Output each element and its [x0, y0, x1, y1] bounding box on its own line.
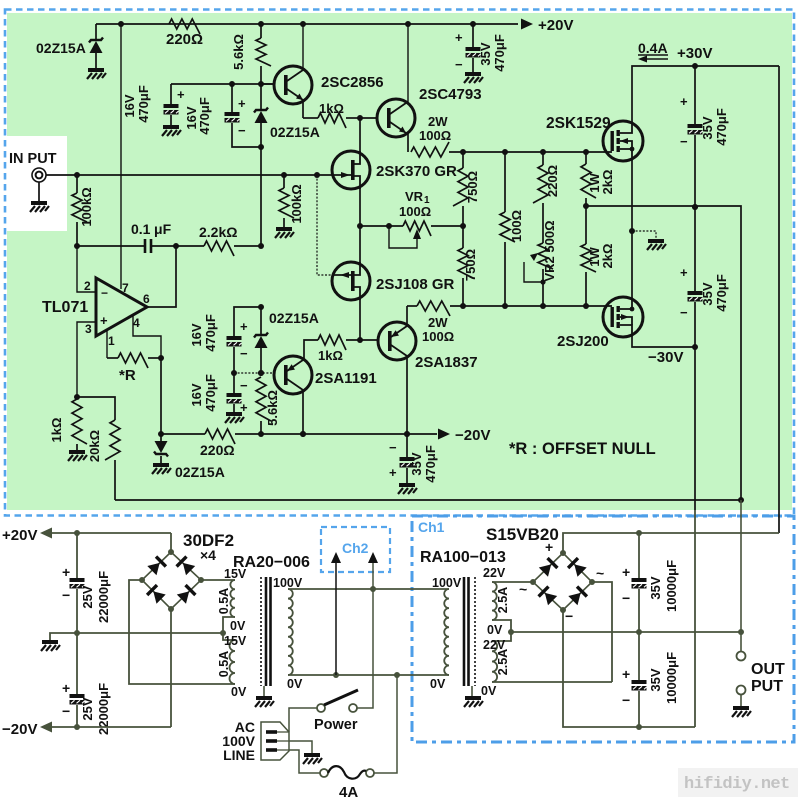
- svg-text:16V: 16V: [189, 323, 204, 346]
- VR1 wiper: [389, 226, 417, 248]
- svg-text:6: 6: [143, 292, 150, 306]
- mosfet Q7 2SK1529: [603, 121, 643, 161]
- wire Q7 drain to +30V rail: [632, 66, 779, 121]
- zener D3 02Z15A: [260, 307, 262, 335]
- capacitor C2 16V 470uF: [229, 81, 235, 87]
- svg-text:+: +: [545, 539, 553, 555]
- capacitor C10 35V 470uF (-20V): [406, 434, 408, 457]
- power switch: [357, 589, 373, 708]
- bridge right vertex to coil: [201, 579, 235, 581]
- ground below C10: [398, 485, 417, 494]
- svg-text:2W: 2W: [428, 114, 448, 129]
- capacitor 25V 22000uF upper: [76, 533, 78, 578]
- svg-text:100Ω: 100Ω: [399, 204, 431, 219]
- amplifier section background: [7, 13, 792, 510]
- svg-text:2SC4793: 2SC4793: [419, 86, 482, 103]
- svg-text:3: 3: [85, 322, 92, 336]
- bridge diodes: [147, 555, 167, 575]
- zener D1 02Z15A: [95, 24, 97, 40]
- svg-text:~: ~: [519, 581, 527, 597]
- svg-text:10000μF: 10000μF: [664, 652, 679, 704]
- svg-text:−30V: −30V: [648, 349, 683, 366]
- svg-text:−: −: [389, 440, 397, 455]
- 0V ground hook: [50, 633, 77, 641]
- svg-text:+: +: [177, 87, 185, 102]
- svg-text:−: −: [622, 590, 630, 606]
- op-amp U1 TL071: [96, 278, 147, 336]
- svg-text:+: +: [62, 680, 70, 696]
- wire bottom feedback rail: [115, 499, 741, 501]
- watermark: [678, 768, 798, 797]
- svg-text:16V: 16V: [122, 94, 137, 117]
- resistor R 1k (Q1 emitter): [303, 117, 318, 119]
- svg-text:*R: *R: [119, 367, 136, 384]
- -20V rail: [158, 431, 164, 437]
- 0V mid line: [511, 631, 741, 633]
- secondary coil top 15V: [230, 580, 235, 617]
- svg-text:2SJ108 GR: 2SJ108 GR: [376, 276, 455, 293]
- svg-text:−20V: −20V: [455, 427, 490, 444]
- svg-text:Power: Power: [314, 717, 358, 733]
- svg-text:470μF: 470μF: [423, 445, 438, 483]
- svg-text:2SK370 GR: 2SK370 GR: [376, 163, 457, 180]
- bridge - down: [563, 610, 695, 727]
- svg-text:02Z15A: 02Z15A: [36, 40, 86, 56]
- resistor *R offset: [107, 357, 118, 359]
- svg-text:2SC2856: 2SC2856: [321, 74, 384, 91]
- +20V supply rail: [40, 528, 52, 539]
- capacitor C1 16V 470uF: [171, 83, 274, 85]
- svg-text:220Ω: 220Ω: [200, 442, 235, 458]
- svg-text:470μF: 470μF: [203, 314, 218, 352]
- resistor R 750 lower: [458, 248, 473, 278]
- svg-text:−: −: [455, 57, 463, 72]
- svg-text:02Z15A: 02Z15A: [270, 124, 320, 140]
- svg-text:0V: 0V: [231, 685, 247, 699]
- wire pin1: [106, 330, 108, 358]
- svg-text:1kΩ: 1kΩ: [319, 101, 344, 116]
- svg-text:100Ω: 100Ω: [419, 128, 451, 143]
- svg-text:2W: 2W: [428, 315, 448, 330]
- core RA100: [464, 577, 469, 686]
- svg-text:2.2kΩ: 2.2kΩ: [199, 224, 237, 240]
- capacitor C6 16V 470uF: [258, 304, 264, 310]
- wire -30V down to PSU: [694, 347, 696, 510]
- secondary bottom 22V: [492, 632, 511, 641]
- jfet Q4 2SJ108 GR: [332, 262, 370, 300]
- svg-text:15V: 15V: [224, 634, 247, 648]
- svg-text:VR: VR: [405, 189, 424, 204]
- svg-text:+: +: [240, 400, 248, 415]
- core RA20: [260, 577, 262, 686]
- svg-text:−: −: [62, 587, 70, 603]
- svg-text:−: −: [680, 134, 688, 149]
- resistor R 100k input: [74, 172, 80, 178]
- svg-text:5.6kΩ: 5.6kΩ: [231, 34, 246, 70]
- svg-text:−: −: [240, 346, 248, 361]
- wire top +20V rail: [96, 23, 518, 25]
- capacitor C5 35V 470uF (+20V rail): [470, 21, 476, 27]
- svg-text:0V: 0V: [430, 677, 446, 691]
- svg-text:35V: 35V: [700, 116, 715, 139]
- wire Q5 emitter + resistor 1k lower: [304, 340, 318, 359]
- wire Q6 emitter up: [406, 306, 408, 324]
- transistor Q6 2SA1837: [378, 322, 416, 360]
- wire V+ feed to op-amp pin7: [118, 21, 124, 27]
- svg-text:~: ~: [596, 565, 604, 581]
- svg-text:100Ω: 100Ω: [422, 329, 454, 344]
- capacitor C9 35V470uF (-30V): [694, 207, 696, 291]
- svg-text:+: +: [680, 94, 688, 109]
- svg-text:220Ω: 220Ω: [166, 31, 203, 48]
- ground below C7: [225, 414, 244, 423]
- bridge left vertex loop: [129, 580, 235, 684]
- zener D2 02Z15A: [258, 81, 264, 87]
- capacitor 35V 10000uF upper: [636, 530, 642, 536]
- svg-text:220Ω: 220Ω: [545, 165, 560, 197]
- outer dashed blue border (amp section): [5, 10, 794, 516]
- svg-text:VR2 500Ω: VR2 500Ω: [542, 220, 557, 281]
- svg-text:−: −: [62, 703, 70, 719]
- svg-text:100kΩ: 100kΩ: [79, 187, 94, 226]
- AC plug: [289, 708, 317, 732]
- svg-text:+20V: +20V: [2, 527, 37, 544]
- capacitor 25V 22000uF lower: [76, 633, 78, 694]
- wire spine x261: [260, 147, 262, 246]
- svg-text:0.4A: 0.4A: [638, 40, 668, 56]
- svg-text:10000μF: 10000μF: [664, 560, 679, 612]
- svg-text:0.5A: 0.5A: [217, 588, 231, 614]
- svg-text:0V: 0V: [481, 684, 497, 698]
- svg-text:−: −: [240, 378, 248, 393]
- ground link at source node: [632, 231, 656, 240]
- resistor R 1W 2k lower: [581, 244, 596, 272]
- bridge ~ right loop: [592, 582, 612, 682]
- svg-text:−: −: [680, 305, 688, 320]
- node top rail to +20V arrow: [521, 19, 533, 30]
- svg-text:4A: 4A: [339, 784, 358, 800]
- Ch2 dashed box: [321, 527, 390, 572]
- primary coil 100V: [444, 589, 449, 675]
- svg-text:+: +: [389, 465, 397, 480]
- plug line to fuse: [289, 750, 320, 773]
- ground below D4: [152, 465, 171, 474]
- svg-text:20kΩ: 20kΩ: [87, 430, 102, 462]
- VR2 500: [538, 243, 553, 269]
- wire x161 down: [160, 358, 162, 434]
- resistor R 2.2k: [173, 243, 179, 249]
- resistor R 750 upper: [460, 149, 466, 155]
- mosfet Q8 2SJ200: [603, 297, 643, 337]
- svg-text:100Ω: 100Ω: [509, 210, 524, 242]
- ground below 1k: [68, 452, 87, 461]
- svg-text:PUT: PUT: [751, 678, 783, 695]
- svg-text:RA100−013: RA100−013: [420, 549, 506, 566]
- svg-text:470μF: 470μF: [197, 97, 212, 135]
- svg-text:2SJ200: 2SJ200: [557, 333, 609, 350]
- svg-text:470μF: 470μF: [714, 108, 729, 146]
- svg-text:+: +: [62, 564, 70, 580]
- bridge + to +30V rail: [563, 533, 779, 553]
- svg-text:2.5A: 2.5A: [496, 587, 510, 613]
- svg-text:02Z15A: 02Z15A: [175, 464, 225, 480]
- svg-text:4: 4: [133, 316, 140, 330]
- wire Q7 source down: [631, 161, 633, 297]
- svg-text:+: +: [455, 30, 463, 45]
- svg-text:2: 2: [84, 279, 91, 293]
- svg-text:+30V: +30V: [677, 45, 712, 62]
- svg-text:2kΩ: 2kΩ: [600, 170, 615, 195]
- svg-text:−: −: [622, 692, 630, 708]
- svg-text:5.6kΩ: 5.6kΩ: [265, 390, 280, 426]
- svg-text:+: +: [622, 666, 630, 682]
- svg-text:25V: 25V: [80, 585, 95, 608]
- OUT PUT jack: [740, 500, 742, 632]
- resistor R 1W 2k upper: [583, 149, 589, 155]
- transistor Q5 2SA1191: [234, 372, 274, 374]
- wire Q8 drain to -30V: [632, 337, 695, 347]
- svg-text:35V: 35V: [409, 452, 424, 475]
- svg-text:hifidiy.net: hifidiy.net: [684, 775, 790, 794]
- svg-text:02Z15A: 02Z15A: [269, 310, 319, 326]
- svg-text:35V: 35V: [478, 42, 493, 65]
- ground below D1: [87, 70, 106, 79]
- resistor R 2W 100ohm upper: [411, 142, 449, 157]
- resistor R 5.6k upper: [258, 21, 264, 27]
- svg-text:35V: 35V: [648, 668, 663, 691]
- svg-text:+: +: [100, 313, 108, 328]
- VR2 wiper: [524, 262, 543, 282]
- svg-text:35V: 35V: [700, 282, 715, 305]
- transistor Q1 2SC2856: [261, 83, 274, 85]
- capacitor C7 16V 470uF: [233, 373, 235, 393]
- svg-text:2kΩ: 2kΩ: [600, 244, 615, 269]
- svg-text:+: +: [680, 265, 688, 280]
- svg-text:16V: 16V: [189, 383, 204, 406]
- svg-text:100kΩ: 100kΩ: [289, 184, 304, 223]
- primary coil 100V: [288, 589, 293, 675]
- svg-text:1: 1: [108, 334, 115, 348]
- ground below C5: [464, 74, 483, 83]
- input white notch: [7, 136, 67, 231]
- resistor R 220 mid: [540, 149, 546, 155]
- svg-text:1kΩ: 1kΩ: [318, 348, 343, 363]
- ground below jack: [30, 203, 49, 212]
- svg-text:2SA1191: 2SA1191: [315, 370, 377, 387]
- svg-text:35V: 35V: [648, 576, 663, 599]
- 0V line across: [288, 674, 449, 676]
- svg-text:7: 7: [122, 281, 129, 295]
- wire pin2: [77, 246, 96, 292]
- wire Q6 collector down: [406, 358, 408, 434]
- capacitor 35V 10000uF lower: [638, 632, 640, 680]
- svg-text:+: +: [238, 96, 246, 111]
- svg-text:−: −: [101, 286, 108, 300]
- svg-text:−: −: [565, 608, 573, 624]
- resistor R 100 mid: [502, 149, 508, 155]
- wire pin4: [133, 316, 161, 358]
- svg-text:0V: 0V: [287, 677, 303, 691]
- ground below C1: [162, 127, 181, 136]
- svg-text:+: +: [240, 319, 248, 334]
- resistor R 220ohm top: [169, 19, 200, 34]
- resistor R 100k (gate bias): [281, 172, 287, 178]
- svg-text:22000μF: 22000μF: [96, 571, 111, 623]
- plug earth: [289, 741, 312, 754]
- Ch1 dashed box: [412, 516, 794, 742]
- ground below 100k: [275, 229, 294, 238]
- transistor Q2 2SC4793: [357, 115, 363, 121]
- svg-text:−: −: [238, 123, 246, 138]
- capacitor C8 35V470uF (+30V): [694, 66, 696, 124]
- svg-text:IN PUT: IN PUT: [9, 151, 57, 167]
- svg-text:2SA1837: 2SA1837: [415, 354, 478, 371]
- svg-text:μF: μF: [154, 221, 172, 237]
- svg-text:750Ω: 750Ω: [465, 171, 480, 203]
- svg-text:+20V: +20V: [538, 17, 573, 34]
- wire Q5 collector: [302, 391, 304, 434]
- svg-text:0V: 0V: [230, 619, 246, 633]
- svg-text:25V: 25V: [80, 697, 95, 720]
- capacitor 0.1uF: [74, 243, 80, 249]
- wire gate rail upper: [449, 151, 603, 153]
- svg-text:470μF: 470μF: [492, 34, 507, 72]
- svg-text:+: +: [622, 564, 630, 580]
- svg-text:−20V: −20V: [2, 721, 37, 738]
- svg-text:470μF: 470μF: [203, 374, 218, 412]
- svg-text:Ch2: Ch2: [342, 540, 369, 556]
- svg-text:22V: 22V: [483, 566, 506, 580]
- svg-text:2.5A: 2.5A: [496, 649, 510, 675]
- resistor R 1k (pin3): [74, 394, 80, 400]
- svg-text:470μF: 470μF: [714, 274, 729, 312]
- svg-text:470μF: 470μF: [136, 85, 151, 123]
- wire output line y206: [586, 206, 741, 500]
- svg-text:1kΩ: 1kΩ: [49, 418, 64, 443]
- svg-text:×4: ×4: [200, 547, 216, 563]
- svg-text:2SK1529: 2SK1529: [546, 115, 611, 132]
- resistor R 2W 100ohm lower: [407, 305, 417, 307]
- wire gate link x317: [314, 172, 320, 178]
- svg-text:OUT: OUT: [751, 661, 785, 678]
- secondary coil bottom 15V: [223, 633, 235, 640]
- svg-text:100V: 100V: [273, 576, 303, 590]
- svg-text:LINE: LINE: [223, 747, 255, 763]
- jfet Q3 2SK370 GR: [46, 174, 332, 176]
- secondary top 22V: [492, 582, 497, 620]
- resistor R 5.6k lower: [256, 377, 271, 421]
- -20V supply rail: [40, 722, 52, 733]
- 0V line to caps: [77, 632, 223, 634]
- wire pin3: [77, 322, 96, 397]
- 100V line across: [288, 588, 449, 590]
- fuse 4A: [320, 769, 328, 777]
- wire pin6 out: [147, 246, 176, 307]
- svg-text:0.5A: 0.5A: [217, 651, 231, 677]
- svg-text:750Ω: 750Ω: [463, 249, 478, 281]
- wire to bridge top: [170, 533, 172, 552]
- svg-text:Ch1: Ch1: [418, 519, 445, 535]
- Ch2 arrows: [335, 562, 337, 675]
- svg-text:TL071: TL071: [42, 299, 88, 316]
- svg-text:15V: 15V: [224, 567, 247, 581]
- resistor R 20k feedback: [77, 397, 115, 420]
- svg-text:*R : OFFSET NULL: *R : OFFSET NULL: [509, 440, 656, 458]
- +30V right vertical: [778, 66, 780, 533]
- wire x360 spine upper: [359, 118, 361, 153]
- svg-text:100V: 100V: [432, 576, 462, 590]
- svg-text:0V: 0V: [487, 623, 503, 637]
- VR1 100ohm: [360, 225, 403, 227]
- zener D4 02Z15A: [160, 434, 162, 441]
- svg-text:0.1: 0.1: [131, 221, 151, 237]
